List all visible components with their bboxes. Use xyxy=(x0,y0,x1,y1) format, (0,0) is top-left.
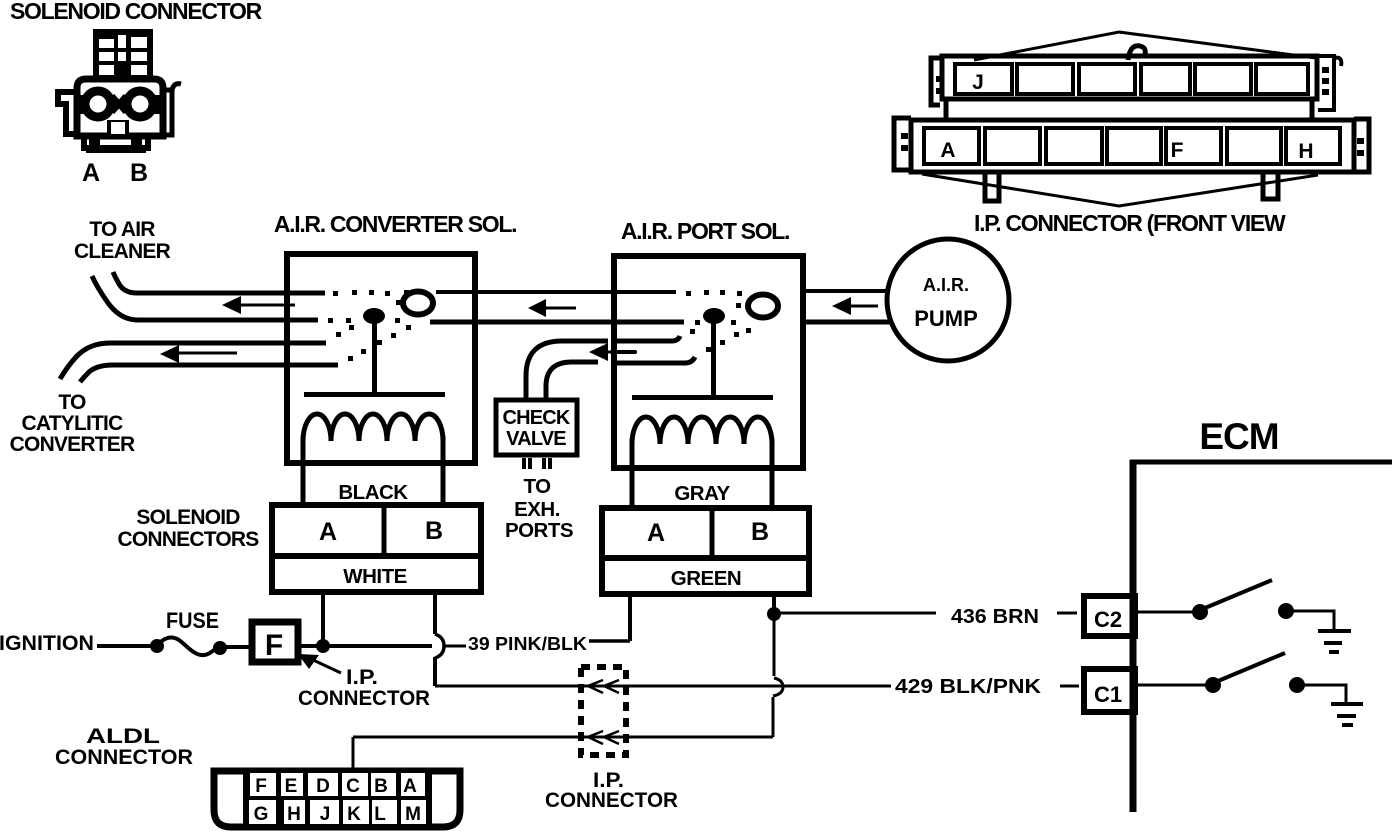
connector grid block xyxy=(93,29,153,79)
svg-text:ECM: ECM xyxy=(1199,416,1278,457)
bottom feet xyxy=(84,136,148,148)
solenoid connector body (2-pin connector drawing) xyxy=(58,29,181,153)
fuse dot left xyxy=(150,639,164,653)
svg-text:A.I.R. CONVERTER SOL.: A.I.R. CONVERTER SOL. xyxy=(274,211,516,237)
svg-text:GREEN: GREEN xyxy=(671,567,741,590)
svg-text:A.I.R. PORT SOL.: A.I.R. PORT SOL. xyxy=(621,218,789,244)
WHITE B lead down (upper part) xyxy=(433,592,437,634)
ALDL pin letters row 1: F E D C B A xyxy=(255,776,417,797)
svg-text:B: B xyxy=(130,159,148,187)
top row housing xyxy=(942,56,1317,99)
GREEN B lead down xyxy=(772,594,776,614)
pipe between boxes lower xyxy=(430,320,684,325)
GREEN A lead down xyxy=(628,594,632,641)
svg-text:H: H xyxy=(287,804,301,825)
valve plunger blob xyxy=(363,308,385,324)
svg-text:IGNITION: IGNITION xyxy=(0,632,94,655)
port plunger blob xyxy=(703,308,725,324)
junction dot GREEN B xyxy=(767,607,781,621)
svg-text:A: A xyxy=(319,518,337,546)
WHITE row box xyxy=(272,556,481,592)
hop over 429 wire xyxy=(773,678,783,696)
spray dots port xyxy=(686,290,751,352)
svg-text:L: L xyxy=(374,804,386,825)
center web between pins xyxy=(112,96,126,112)
switch blade C1 xyxy=(1218,653,1285,681)
arrow callout to F box xyxy=(311,659,341,673)
svg-text:PUMP: PUMP xyxy=(914,306,978,331)
svg-text:CHECK: CHECK xyxy=(502,407,570,429)
check valve legs xyxy=(524,458,550,469)
port connector A/B box xyxy=(602,508,809,558)
svg-text:CONVERTER: CONVERTER xyxy=(10,433,135,456)
left mounting tab xyxy=(58,92,77,134)
svg-text:A: A xyxy=(403,776,417,797)
lower IP wire xyxy=(353,736,773,739)
svg-text:F: F xyxy=(1171,139,1184,162)
arrow in air cleaner pipe xyxy=(222,296,241,314)
wire contact to ground C2 xyxy=(1286,611,1334,631)
interior pipe stub y362 xyxy=(616,357,695,363)
bottom row housing xyxy=(911,120,1354,172)
dashed I.P. connector box xyxy=(581,667,626,755)
svg-text:BLACK: BLACK xyxy=(338,481,408,504)
wire 39 pink/blk left segment xyxy=(323,644,432,648)
short wire before 39 label xyxy=(445,645,466,648)
svg-text:EXH.: EXH. xyxy=(514,498,560,521)
converter connector A/B box xyxy=(272,505,481,556)
interior pipe stub y292 xyxy=(616,290,676,294)
ALDL cells row 1 xyxy=(249,773,426,824)
GREEN row box xyxy=(602,558,809,594)
pipe to air cleaner upper line xyxy=(113,272,325,293)
slot row J xyxy=(955,64,1012,94)
svg-text:B: B xyxy=(751,518,769,546)
SECTION: port solenoid xyxy=(589,218,803,508)
port plunger base bar xyxy=(632,395,773,400)
switch pole dot C2 xyxy=(1192,604,1208,620)
pump pipe upper xyxy=(806,289,888,293)
svg-text:TO: TO xyxy=(58,391,86,414)
svg-text:TO AIR: TO AIR xyxy=(89,218,155,241)
SECTION: bottom wiring xyxy=(0,592,1079,812)
switch wire C2 xyxy=(1136,611,1199,614)
SECTION: pump xyxy=(806,239,1009,361)
svg-text:J: J xyxy=(320,804,331,825)
chevrons on lower wire xyxy=(588,731,619,744)
svg-text:H: H xyxy=(1298,140,1313,163)
svg-text:CLEANER: CLEANER xyxy=(74,240,171,263)
dash before C2 xyxy=(1057,612,1077,615)
svg-text:CATYLITIC: CATYLITIC xyxy=(22,412,124,435)
bottom keyway notch xyxy=(107,120,129,134)
svg-text:GRAY: GRAY xyxy=(674,482,730,505)
mounting tab right xyxy=(1263,172,1278,199)
plunger base bar xyxy=(304,392,445,397)
svg-text:E: E xyxy=(285,776,298,797)
ECM boundary vertical xyxy=(1130,460,1137,812)
svg-text:J: J xyxy=(972,71,984,94)
wire fuse to F box xyxy=(220,645,251,649)
port coil lead left xyxy=(630,439,635,508)
left end cap bottom row xyxy=(894,118,911,170)
bottom cover V lines xyxy=(922,174,1318,206)
svg-text:C1: C1 xyxy=(1094,682,1122,707)
svg-text:D: D xyxy=(316,776,330,797)
coil lead left xyxy=(301,436,306,505)
pin band fillers xyxy=(79,95,89,114)
check valve box xyxy=(496,400,577,455)
svg-text:WHITE: WHITE xyxy=(343,565,407,588)
pump pipe lower xyxy=(806,320,892,325)
converter solenoid box xyxy=(287,254,475,463)
latch hook at top center xyxy=(1128,46,1145,60)
svg-text:CONNECTORS: CONNECTORS xyxy=(118,528,260,551)
riser between rows xyxy=(946,99,1312,121)
svg-text:M: M xyxy=(405,804,421,825)
SECTION: IP connector front view top-right xyxy=(894,32,1369,236)
switch pole dot C1 xyxy=(1205,677,1221,693)
hop of WHITE B wire over 39 wire xyxy=(435,634,444,658)
spray dots converter xyxy=(328,290,411,361)
ALDL pin letters row 2: G H J K L M xyxy=(254,804,421,825)
fuse dot right xyxy=(213,641,227,655)
switch contact dot C2 xyxy=(1278,603,1294,619)
svg-text:ALDL: ALDL xyxy=(86,725,160,748)
SECTION: ALDL xyxy=(55,725,460,827)
top cover peak lines xyxy=(974,32,1316,60)
right clip top row xyxy=(1318,56,1341,110)
svg-text:SOLENOID CONNECTOR: SOLENOID CONNECTOR xyxy=(10,0,263,24)
switch wire C1 xyxy=(1136,684,1212,687)
svg-text:I.P. CONNECTOR (FRONT VIEW: I.P. CONNECTOR (FRONT VIEW xyxy=(974,210,1286,236)
interior pipe stub y340 xyxy=(616,336,680,341)
svg-text:A: A xyxy=(82,159,100,187)
port valve ball circle xyxy=(748,295,778,318)
ground symbol C2 xyxy=(1318,629,1351,633)
wire ignition to fuse xyxy=(97,644,158,648)
ALDL pin grid xyxy=(243,770,432,827)
chevrons on 429 wire xyxy=(588,680,619,693)
SECTION: ECM xyxy=(1084,416,1392,812)
divider converter A/B xyxy=(382,505,387,556)
SECTION: connectors below solenoids xyxy=(118,505,809,594)
svg-text:A: A xyxy=(940,139,955,162)
pipe to catalytic lower line xyxy=(80,365,338,382)
plunger stem xyxy=(372,320,377,394)
svg-text:CONNECTOR: CONNECTOR xyxy=(298,687,430,710)
junction dot at F xyxy=(316,639,330,653)
C2 terminal box xyxy=(1084,596,1135,636)
wire contact to ground C1 xyxy=(1297,685,1346,704)
divider port A/B xyxy=(710,508,715,558)
interior pipe stub y322 xyxy=(616,320,684,325)
check valve pipe inner xyxy=(546,362,598,398)
pin A circle xyxy=(85,91,111,117)
mounting tab left xyxy=(985,172,999,201)
svg-text:B: B xyxy=(374,776,388,797)
coil lead right xyxy=(441,436,446,505)
WHITE A lead down xyxy=(321,592,325,646)
svg-text:K: K xyxy=(347,804,361,825)
SECTION: solenoid connector top-left xyxy=(10,0,263,187)
vertical continue down xyxy=(772,697,775,737)
svg-text:C2: C2 xyxy=(1094,607,1122,632)
ground symbol C1 xyxy=(1331,702,1363,706)
wire 429 horizontal xyxy=(435,685,891,688)
SECTION: check valve xyxy=(496,341,608,542)
switch contact dot C1 xyxy=(1289,677,1305,693)
svg-text:F: F xyxy=(255,776,267,797)
right end cap bottom row xyxy=(1354,119,1369,172)
svg-text:G: G xyxy=(254,804,269,825)
ECM boundary top horizontal xyxy=(1130,460,1392,465)
lead down to ALDL C pin xyxy=(352,737,355,770)
svg-text:PORTS: PORTS xyxy=(505,519,573,542)
pipe to air cleaner lower line xyxy=(92,276,318,320)
svg-text:TO: TO xyxy=(523,475,551,498)
pipe to catalytic upper line xyxy=(60,343,326,379)
svg-text:I.P.: I.P. xyxy=(346,666,378,689)
svg-text:436 BRN: 436 BRN xyxy=(951,606,1039,628)
slot row A..H xyxy=(924,128,979,164)
wire F box to junction xyxy=(298,644,330,648)
svg-text:CONNECTOR: CONNECTOR xyxy=(545,789,678,812)
wire after label to GREEN A xyxy=(589,639,630,643)
arrow pump pipe xyxy=(832,297,851,315)
check valve pipe outer xyxy=(526,341,608,398)
pipe between boxes upper xyxy=(436,290,676,294)
svg-text:39 PINK/BLK: 39 PINK/BLK xyxy=(468,634,587,654)
svg-text:429 BLK/PNK: 429 BLK/PNK xyxy=(895,676,1042,698)
port solenoid box xyxy=(614,256,803,468)
dash before C1 xyxy=(1060,685,1079,688)
arrow at port box left xyxy=(589,343,608,361)
svg-text:C: C xyxy=(346,776,360,797)
svg-text:SOLENOID: SOLENOID xyxy=(136,506,240,529)
valve ball circle xyxy=(403,292,433,315)
ALDL housing xyxy=(214,771,460,827)
WHITE B lead down (lower part) xyxy=(433,657,437,686)
SECTION: converter solenoid xyxy=(10,211,684,505)
C1 terminal box xyxy=(1084,669,1135,712)
vertical from 436 junction down xyxy=(773,614,776,676)
fuse squiggle xyxy=(157,638,219,656)
F box (I.P. connector fuse) xyxy=(252,622,298,662)
port plunger stem xyxy=(711,320,716,397)
pin B circle xyxy=(127,91,153,117)
svg-text:FUSE: FUSE xyxy=(166,608,219,633)
arrow in catalytic pipe xyxy=(160,345,179,363)
switch blade C2 xyxy=(1205,580,1272,608)
connector main body xyxy=(77,79,163,136)
port coil lead right xyxy=(770,439,775,508)
port coil xyxy=(632,417,772,444)
interior pipe stub y352 xyxy=(616,350,636,354)
A.I.R. pump circle xyxy=(887,239,1009,361)
svg-text:F: F xyxy=(265,629,283,662)
wire 436 to ECM xyxy=(774,612,936,615)
left clip top row xyxy=(931,58,940,105)
converter coil xyxy=(303,414,443,441)
svg-text:A: A xyxy=(647,519,665,547)
svg-text:B: B xyxy=(425,517,443,545)
svg-text:A.I.R.: A.I.R. xyxy=(923,275,969,295)
arrow between boxes xyxy=(528,299,546,317)
right mounting tab xyxy=(163,84,181,135)
svg-text:VALVE: VALVE xyxy=(506,428,566,450)
svg-text:CONNECTOR: CONNECTOR xyxy=(55,746,193,769)
